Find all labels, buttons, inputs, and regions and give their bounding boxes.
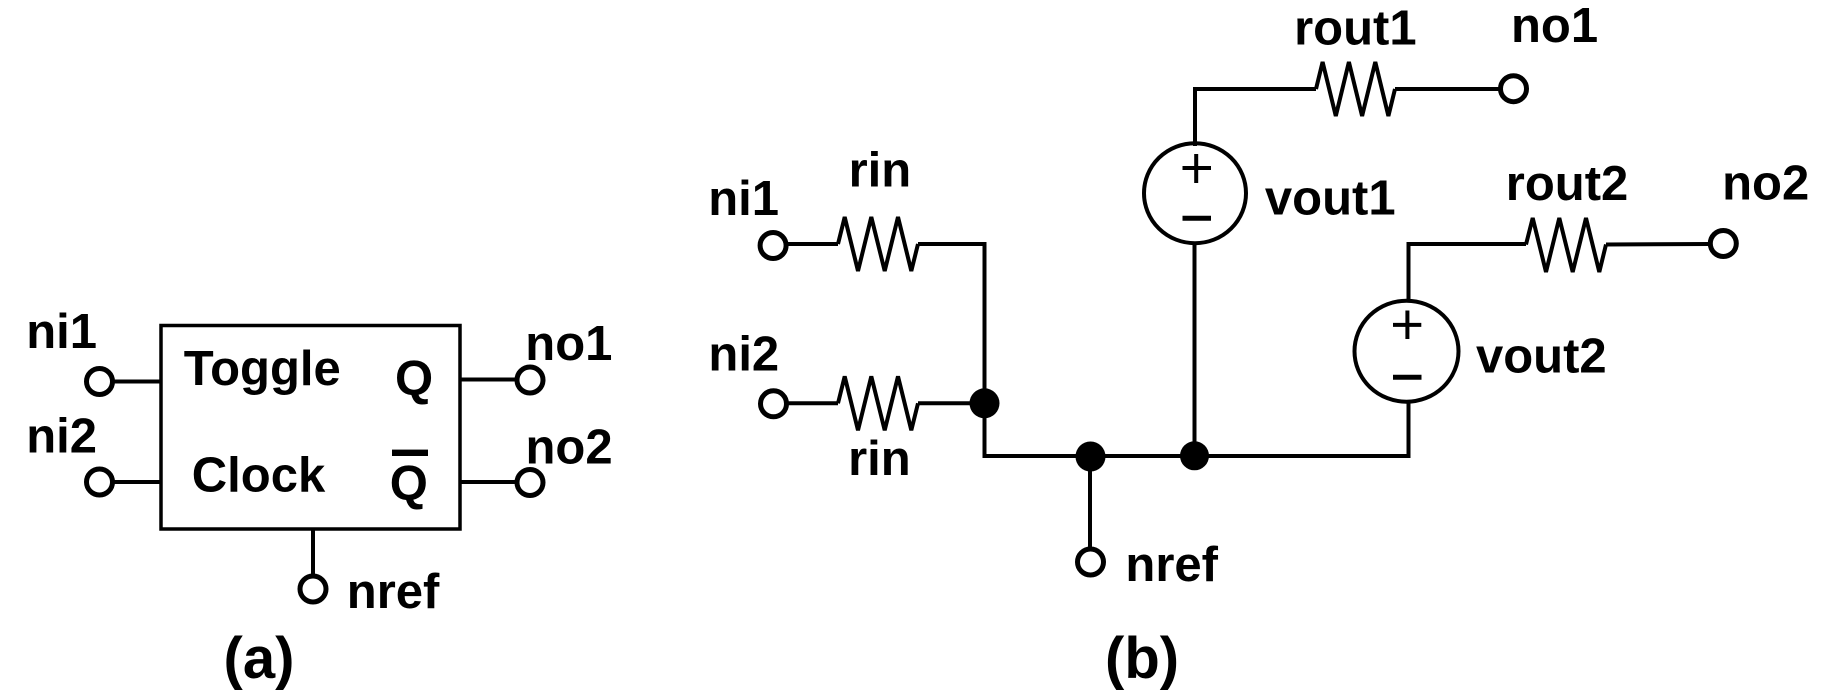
wire bus to nref terminal — [1088, 456, 1092, 549]
svg-text:vout1: vout1 — [1265, 171, 1396, 225]
resistor rout2 — [1526, 218, 1606, 272]
wire ni2 to block — [113, 480, 161, 484]
wire block to no1 — [460, 378, 516, 382]
svg-text:vout2: vout2 — [1476, 330, 1607, 384]
svg-text:nref: nref — [347, 565, 440, 619]
wire block to nref (a) — [311, 529, 315, 574]
terminal ni1 (b) — [760, 233, 786, 259]
svg-text:ni1: ni1 — [26, 305, 97, 359]
svg-text:ni2: ni2 — [26, 410, 97, 464]
resistor rout1 — [1316, 62, 1395, 116]
wire ni1 to rin1 — [788, 242, 838, 246]
flip-flop block U1 — [161, 326, 460, 530]
svg-text:no2: no2 — [526, 421, 613, 475]
svg-text:Q: Q — [390, 457, 428, 511]
svg-text:Q: Q — [395, 352, 433, 406]
wire block to no2 — [460, 480, 516, 484]
svg-text:Toggle: Toggle — [184, 342, 341, 396]
svg-text:no1: no1 — [525, 317, 612, 371]
voltage source vout1 — [1144, 143, 1246, 243]
terminal ni2 (a) — [87, 469, 113, 495]
resistor rin (bottom) — [838, 376, 918, 430]
terminal no1 (b) — [1501, 76, 1527, 102]
wire ni2 to rin2 — [788, 401, 838, 405]
voltage source vout2 — [1355, 301, 1459, 402]
resistor rin (top) — [838, 217, 918, 271]
terminal ni1 (a) — [87, 369, 113, 395]
terminal no1 (a) — [517, 367, 543, 393]
vout1 plus sign — [1183, 154, 1212, 183]
svg-text:ni1: ni1 — [708, 172, 779, 226]
svg-text:rin: rin — [848, 432, 911, 486]
junction dot rin2 — [970, 388, 1000, 418]
wire rout2 to no2 — [1606, 242, 1709, 247]
terminal nref (a) — [300, 576, 326, 602]
svg-text:no2: no2 — [1722, 157, 1809, 211]
junction dot vout1 — [1180, 441, 1209, 470]
wire vout1 top to rout1 — [1195, 89, 1316, 146]
wire ni1 to block — [113, 380, 161, 384]
svg-text:no1: no1 — [1511, 0, 1598, 53]
svg-text:Clock: Clock — [192, 449, 326, 503]
wire rin2 to junction — [918, 401, 985, 405]
vout2 minus sign — [1393, 375, 1422, 380]
wire vout2 bottom to bus — [1407, 402, 1411, 456]
wire rin1 to corner and down to bus — [918, 244, 1411, 456]
vout1 minus sign — [1183, 216, 1212, 221]
svg-text:nref: nref — [1125, 538, 1218, 592]
junction dot nref — [1076, 442, 1106, 472]
terminal no2 (a) — [517, 470, 543, 496]
svg-text:(a): (a) — [224, 626, 295, 691]
pin label Q-bar — [390, 450, 428, 511]
wire vout2 top to rout2 corner — [1409, 244, 1527, 300]
wire vout1 bottom to bus — [1193, 242, 1197, 456]
svg-text:ni2: ni2 — [708, 328, 779, 382]
vout2 plus sign — [1393, 311, 1421, 340]
svg-text:rin: rin — [849, 144, 912, 198]
terminal ni2 (b) — [761, 391, 787, 417]
wire rout1 to no1 — [1395, 87, 1499, 91]
terminal nref (b) — [1078, 549, 1104, 575]
svg-text:(b): (b) — [1105, 626, 1179, 691]
svg-text:rout2: rout2 — [1506, 157, 1629, 211]
svg-text:rout1: rout1 — [1294, 2, 1417, 56]
terminal no2 (b) — [1710, 231, 1736, 257]
